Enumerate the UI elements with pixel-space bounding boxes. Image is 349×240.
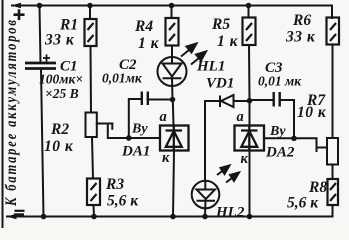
wire C1 branch top xyxy=(40,6,41,63)
wire HL2 through leads xyxy=(204,181,206,190)
svg-text:1 к: 1 к xyxy=(217,33,239,50)
svg-text:R4: R4 xyxy=(134,18,153,35)
node dot bottom rail DA2 cathode xyxy=(247,214,253,220)
analog trigger DA2 box xyxy=(235,126,265,151)
node dot bottom rail C1 xyxy=(41,214,47,220)
wire C2 left plate to Vu node xyxy=(129,99,142,138)
resistor R1 body xyxy=(85,19,97,46)
LED HL1 emission arrows xyxy=(181,44,206,65)
wire bottom supply rail xyxy=(7,216,333,218)
resistor R8 body xyxy=(328,179,339,205)
node dot top rail C1 xyxy=(37,3,43,9)
svg-text:Ву: Ву xyxy=(131,122,148,137)
wire DA1 control input Vu xyxy=(129,137,160,139)
wire R6 to R7 xyxy=(332,45,334,139)
svg-text:HL1: HL1 xyxy=(196,59,225,75)
capacitor C1 plus mark xyxy=(43,55,50,62)
capacitor C3 plates xyxy=(274,92,280,107)
svg-text:R3: R3 xyxy=(105,176,124,193)
wire R2 wiper tap xyxy=(97,123,113,125)
wire DA1 cathode to bottom rail xyxy=(173,151,174,217)
arrow to battery plus (top left) xyxy=(11,3,21,8)
wire top supply rail xyxy=(12,5,332,7)
wire C3 right lead down to DA2 Vu node xyxy=(280,100,294,138)
svg-text:а: а xyxy=(160,109,167,125)
wire R3 bottom lead xyxy=(93,205,96,217)
wire VD1 right segment xyxy=(234,100,250,102)
wire DA2 cathode to bottom rail xyxy=(249,151,251,217)
LED HL2 xyxy=(192,181,220,209)
svg-text:DA2: DA2 xyxy=(265,145,295,161)
wire R1 to R2 xyxy=(90,46,93,113)
node dot top rail R4 xyxy=(169,3,175,9)
node dot top rail R5 xyxy=(246,3,252,9)
svg-text:33 к: 33 к xyxy=(285,29,316,46)
svg-text:0,01мк: 0,01мк xyxy=(102,71,143,86)
svg-text:HL2: HL2 xyxy=(215,205,245,221)
wire R1 top lead xyxy=(89,6,91,20)
node dot DA1 Vu / R2 wiper / C2 xyxy=(126,135,132,141)
svg-text:5,6 к: 5,6 к xyxy=(107,193,139,210)
resistor R6 body xyxy=(327,18,340,45)
node dot R5 / VD1 / C3 xyxy=(247,98,253,104)
svg-text:R6: R6 xyxy=(292,12,311,29)
svg-text:К батарее аккумуляторов: К батарее аккумуляторов xyxy=(3,20,21,207)
plus polarity sign xyxy=(14,9,25,20)
wire C1 branch bottom xyxy=(41,69,44,217)
wire R7 to R8 xyxy=(332,165,334,180)
resistor R7 body (trimmer) xyxy=(327,138,338,165)
svg-text:к: к xyxy=(241,151,249,167)
svg-text:100мк×: 100мк× xyxy=(39,72,83,87)
analog trigger DA1 box xyxy=(160,126,189,151)
wire C3 left lead xyxy=(250,99,274,101)
wire DA2 control input Vu xyxy=(264,137,294,139)
svg-text:33 к: 33 к xyxy=(44,32,75,49)
wire R5 down to VD1 node xyxy=(248,45,251,101)
capacitor C2 plates xyxy=(142,92,148,106)
svg-text:10 к: 10 к xyxy=(44,138,74,155)
wire VD1 node to DA2 anode xyxy=(249,101,251,126)
wire right bottom corner up to R8 xyxy=(332,205,334,217)
node dot top rail R1 xyxy=(87,3,93,9)
arrow to battery minus (bottom left) xyxy=(7,214,17,219)
wire R4 to HL1 xyxy=(171,46,173,64)
resistor R3 body xyxy=(87,179,100,206)
diode VD1 xyxy=(220,95,234,107)
svg-text:VD1: VD1 xyxy=(206,76,234,92)
minus polarity sign xyxy=(14,211,25,215)
LED HL2 emission arrows xyxy=(217,166,239,183)
wire R2 to R3 xyxy=(92,137,93,179)
frame left border xyxy=(2,0,4,228)
wire R4 top lead xyxy=(171,6,173,19)
capacitor C1 (electrolytic) plates xyxy=(25,63,56,69)
wire VD1 left segment to HL2 branch xyxy=(205,101,220,181)
svg-text:R2: R2 xyxy=(50,121,69,138)
node dot bottom rail DA1 cathode xyxy=(170,214,176,220)
LED HL1 xyxy=(158,57,187,86)
svg-text:1 к: 1 к xyxy=(138,35,160,52)
wire HL1 to node A1 xyxy=(171,78,174,99)
node dot HL1 / C2 / DA1 anode xyxy=(170,97,176,103)
svg-text:а: а xyxy=(237,109,244,125)
wire R7 wiper tap xyxy=(294,138,317,151)
svg-text:R5: R5 xyxy=(211,16,230,33)
wire R5 top lead xyxy=(248,6,250,18)
svg-text:5,6 к: 5,6 к xyxy=(287,195,319,212)
wire node A1 to DA1 anode xyxy=(172,100,175,126)
svg-text:10 к: 10 к xyxy=(297,104,327,121)
wire right top corner down to R6 xyxy=(331,6,333,19)
wire C2 right plate to HL1 node xyxy=(148,99,173,101)
svg-text:к: к xyxy=(162,150,170,166)
svg-text:DA1: DA1 xyxy=(121,144,150,160)
svg-text:×25 В: ×25 В xyxy=(45,86,79,101)
resistor R5 body xyxy=(243,18,256,46)
svg-text:0,01 мк: 0,01 мк xyxy=(258,74,302,89)
node dot DA2 Vu / R7 wiper / C3 xyxy=(291,136,297,142)
resistor R4 body xyxy=(166,18,179,46)
svg-text:Ву: Ву xyxy=(269,124,286,139)
node dot bottom rail HL2 xyxy=(202,214,208,220)
resistor R2 body (trimmer) xyxy=(86,113,97,138)
node dot bottom rail R3 xyxy=(91,214,97,220)
svg-text:R8: R8 xyxy=(308,179,327,196)
